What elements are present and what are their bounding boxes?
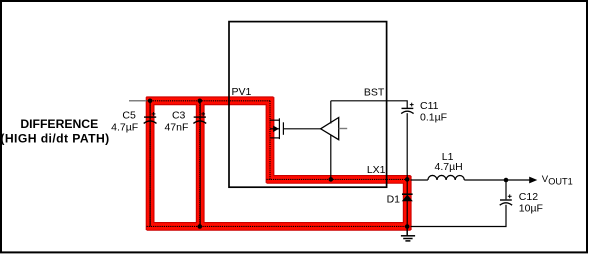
MOSFET arrow [273,126,279,133]
IC box [229,22,387,188]
svg-text:C3: C3 [172,110,186,122]
svg-text:BST: BST [364,86,385,98]
diode D1 [402,193,413,195]
svg-text:47nF: 47nF [164,121,188,133]
svg-text:0.1µF: 0.1µF [420,111,447,123]
wire inductor to output node [464,179,506,181]
svg-text:VOUT1: VOUT1 [542,174,573,187]
C5 polarity plus [152,112,156,116]
svg-text:4.7µH: 4.7µH [435,161,463,173]
capacitor C5 [144,117,157,123]
arrowhead [529,177,537,184]
capacitor C12 [500,200,512,205]
diode D1 lead (solid over red) [406,179,408,226]
gate wire [283,128,320,130]
svg-text:DIFFERENCE: DIFFERENCE [20,117,98,131]
ground [401,227,415,241]
output arrow wire [506,179,530,181]
C12 upper lead [505,180,507,199]
svg-text:C5: C5 [122,110,136,122]
driver return wire to LX1 [330,135,332,180]
capacitor C5 lead (solid over red) [149,103,151,226]
svg-text:(HIGH di/dt PATH): (HIGH di/dt PATH) [0,131,109,145]
svg-text:D1: D1 [387,193,401,205]
capacitor C3 [193,117,206,123]
C12 lower lead and return wire to ground node [411,205,506,227]
capacitor C3 lead (solid over red) [199,103,201,226]
svg-text:10µF: 10µF [519,203,543,215]
C3 polarity plus [201,112,205,116]
input wire stub (grey) [129,100,147,102]
internal MOSFET Q (pass transistor) [270,118,283,139]
BST wire [331,101,407,108]
svg-text:PV1: PV1 [232,86,252,98]
dashed black centerline of red path [146,101,407,227]
title DIFFERENCE (HIGH di/dt PATH) [0,117,109,145]
high di/dt current path highlight (red), bright layer [147,98,410,230]
capacitor C11 [401,108,413,113]
driver right stub [339,128,348,130]
high di/dt current path highlight (red), dark edge layer [146,97,411,230]
svg-text:LX1: LX1 [367,164,386,176]
C11 polarity plus [410,103,414,107]
svg-text:C12: C12 [519,191,538,203]
svg-text:4.7µF: 4.7µF [111,121,138,133]
driver supply wire from BST [330,101,332,124]
C11 lower lead down to LX1 [406,113,408,179]
inductor L1 [428,175,464,180]
LX1 wire to inductor [411,179,428,181]
gate driver U (triangle) [321,118,339,140]
C12 polarity plus [508,194,512,198]
